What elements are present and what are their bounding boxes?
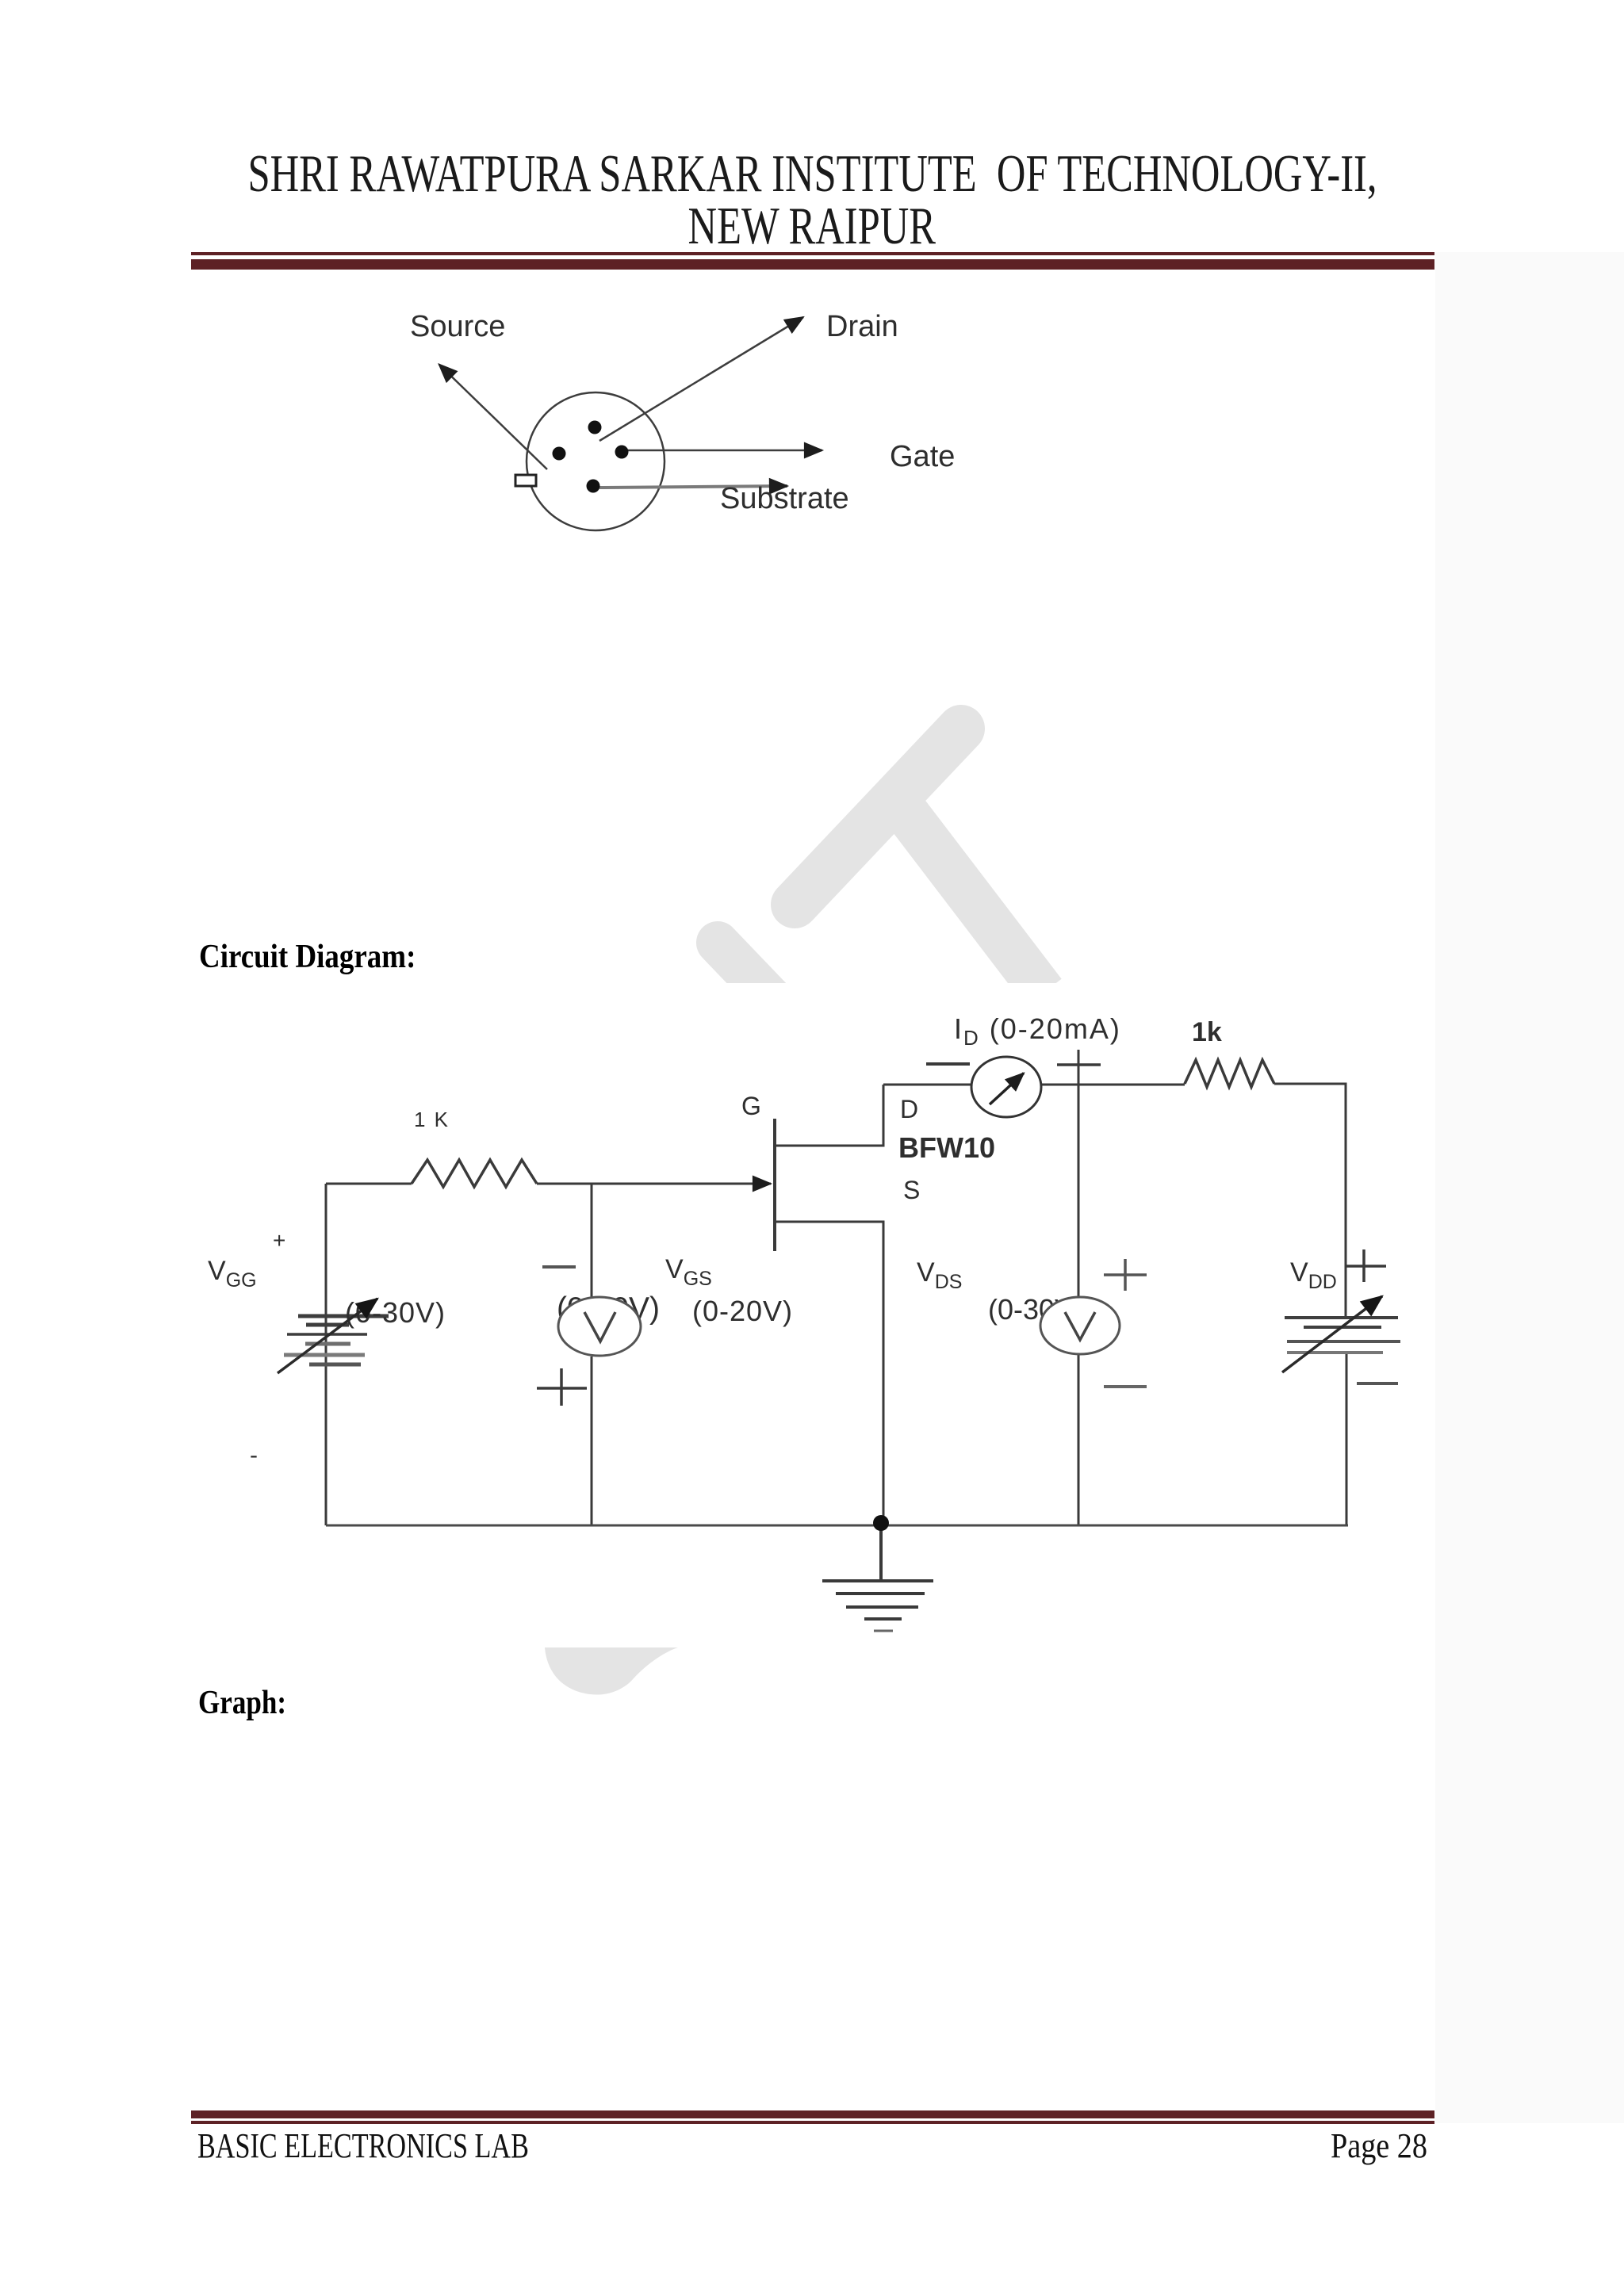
svg-text:VDD: VDD — [1290, 1257, 1337, 1293]
svg-text:S: S — [903, 1176, 920, 1204]
svg-text:1k: 1k — [1192, 1017, 1222, 1047]
svg-text:VGG: VGG — [208, 1256, 257, 1291]
svg-text:G: G — [741, 1092, 761, 1120]
svg-text:Substrate: Substrate — [720, 482, 849, 515]
svg-text:BFW10: BFW10 — [898, 1131, 995, 1164]
svg-text:+: + — [273, 1228, 285, 1253]
svg-text:1 K: 1 K — [414, 1108, 450, 1131]
svg-text:ID (0-20mA): ID (0-20mA) — [954, 1012, 1121, 1050]
svg-text:Drain: Drain — [826, 310, 898, 343]
svg-text:VGS: VGS — [665, 1254, 712, 1290]
svg-text:(0-20V): (0-20V) — [692, 1295, 793, 1327]
svg-text:Source: Source — [410, 310, 505, 343]
svg-text:Gate: Gate — [890, 440, 955, 473]
svg-text:-: - — [250, 1442, 258, 1468]
svg-text:D: D — [900, 1095, 918, 1123]
svg-text:VDS: VDS — [917, 1257, 962, 1293]
